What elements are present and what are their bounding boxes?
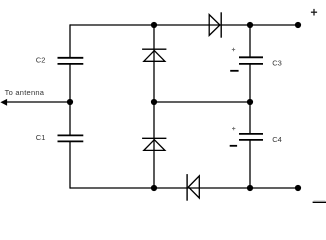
diode D3 (lower middle, cathode up) — [142, 138, 166, 150]
wire left column upper (top rail to C2) — [69, 24, 71, 57]
svg-text:C2: C2 — [36, 55, 46, 64]
wire bottom rail — [70, 187, 298, 189]
wire left column middle (C2 to antenna node) — [69, 64, 71, 102]
wire to antenna with arrowhead — [0, 88, 70, 106]
capacitor C2 — [36, 55, 84, 64]
capacitor C1 — [36, 133, 84, 142]
capacitor C3 — [239, 57, 282, 67]
svg-text:C4: C4 — [272, 135, 282, 144]
wire right column bottom (C4 to bottom rail) — [249, 140, 251, 188]
wire right column upper (top rail to C3) — [249, 25, 251, 57]
wire right column middle (C3 to mid node) — [249, 64, 251, 102]
wire top rail — [70, 24, 298, 26]
node bottom rail / middle column — [151, 185, 157, 191]
node middle junction — [151, 99, 157, 105]
C3 minus mark — [230, 70, 238, 72]
wire left column lower (antenna node to C1) — [69, 102, 71, 135]
wire middle column vertical — [153, 25, 155, 188]
node top rail / right column — [247, 22, 253, 28]
wire middle row right segment — [154, 101, 250, 103]
label + output — [311, 9, 317, 16]
node antenna junction — [67, 99, 73, 105]
label - output — [314, 199, 326, 202]
terminal positive output — [295, 22, 301, 28]
svg-text:C1: C1 — [36, 133, 46, 142]
wire left column bottom (C1 to bottom rail) — [69, 141, 71, 188]
svg-text:C3: C3 — [272, 58, 282, 67]
C4 minus mark — [230, 145, 237, 147]
diode D1 (top rail, pointing right) — [209, 12, 221, 37]
diode D2 (upper middle, cathode up) — [142, 49, 166, 61]
C3 plus mark — [232, 48, 235, 51]
terminal negative output — [295, 185, 301, 191]
node top rail / middle column — [151, 22, 157, 28]
diode D4 (bottom rail, pointing left) — [187, 174, 199, 201]
node bottom rail / right column — [247, 185, 253, 191]
C4 plus mark — [232, 127, 235, 130]
node right middle junction — [247, 99, 253, 105]
capacitor C4 — [239, 134, 282, 144]
wire right column (mid node to C4) — [249, 102, 251, 134]
svg-text:To antenna: To antenna — [5, 88, 45, 97]
